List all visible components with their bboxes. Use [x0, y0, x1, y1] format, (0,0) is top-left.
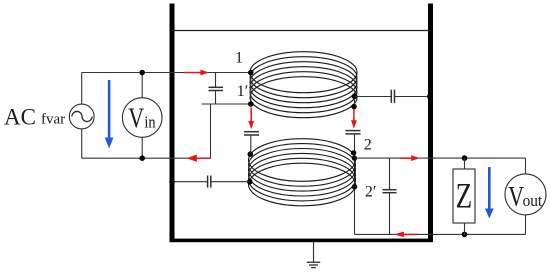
- wire coil1 to shield cap: [355, 96, 391, 98]
- wire node 2 output: [355, 157, 465, 159]
- junction node 2: [351, 150, 356, 155]
- junction coil2 left lower: [247, 179, 253, 185]
- wire return drop: [210, 104, 212, 158]
- svg-text:AC: AC: [4, 105, 36, 130]
- arrow down left (red): [248, 108, 254, 130]
- wire bottom return outside: [82, 157, 211, 159]
- shield wall right: [428, 4, 433, 243]
- capacitor C5 (coil2 to shield left): [174, 176, 250, 188]
- svg-text:Z: Z: [456, 176, 473, 216]
- arrow Vout (blue): [485, 167, 494, 219]
- junction coil1 right upper: [352, 94, 358, 100]
- wire output top to Vout: [465, 157, 526, 159]
- junction node 2': [352, 184, 358, 190]
- impedance Z: [453, 158, 475, 234]
- arrow current return (red, left): [187, 155, 211, 162]
- ground: [307, 242, 320, 268]
- arrow Vin (blue): [105, 80, 114, 149]
- capacitor C1 (across coil 1, left): [209, 73, 224, 105]
- wire bottom return: [355, 233, 526, 235]
- svg-text:2′: 2′: [365, 183, 377, 200]
- wire coil1 left stub: [250, 73, 252, 105]
- svg-text:1: 1: [235, 49, 243, 66]
- voltmeter Vin: [122, 73, 162, 159]
- AC source V1: [69, 104, 94, 129]
- wire top feed (AC to node 1): [82, 72, 251, 74]
- capacitor C2 (coupling left): [244, 132, 259, 155]
- junction Vin top: [139, 70, 145, 76]
- voltmeter Vout: [505, 174, 546, 215]
- arrow current back (red, left): [394, 232, 417, 238]
- coil L1: [250, 52, 357, 118]
- junction coil1 right lower: [351, 104, 357, 110]
- shield top wire: [172, 30, 430, 32]
- capacitor C4 (coupling right): [346, 131, 361, 235]
- junction shield right: [427, 94, 433, 100]
- svg-text:out: out: [523, 191, 543, 210]
- junction Vin bottom: [139, 155, 145, 161]
- shield wall left: [170, 4, 175, 243]
- arrow down right (red): [351, 109, 357, 129]
- junction node 1': [248, 101, 254, 107]
- arrow current out (red, right): [400, 155, 420, 161]
- wire node 1' horizontal: [202, 103, 251, 105]
- capacitor C3 (coil1 to shield): [391, 90, 428, 103]
- junction Z top: [462, 155, 468, 161]
- svg-text:2: 2: [364, 137, 372, 154]
- svg-text:1′: 1′: [237, 83, 249, 100]
- svg-text:fvar: fvar: [41, 112, 65, 128]
- junction Z bottom: [462, 232, 468, 238]
- wire coil1 right stub: [354, 96, 356, 106]
- coil L2: [249, 139, 356, 206]
- capacitor C6 (across output): [383, 158, 397, 234]
- svg-text:in: in: [144, 113, 156, 132]
- wire AC loop left vertical: [81, 73, 83, 105]
- svg-text:V: V: [128, 103, 144, 135]
- junction node 1: [248, 70, 254, 76]
- junction node 2 tap: [352, 155, 357, 160]
- junction coil2 left upper: [248, 151, 254, 157]
- junction shield left: [169, 179, 175, 185]
- shield bottom wall: [170, 239, 433, 243]
- arrow current in top (red, right): [184, 70, 209, 76]
